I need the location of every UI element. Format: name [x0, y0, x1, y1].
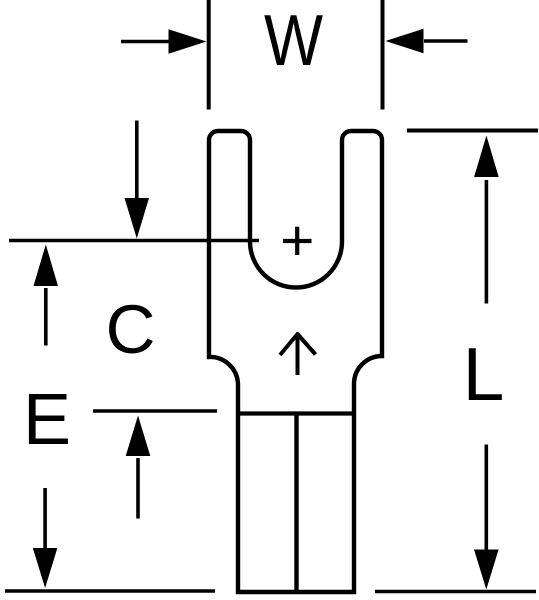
svg-text:E: E — [23, 380, 71, 460]
W extension line left — [207, 0, 211, 110]
insertion direction up-arrow glyph — [280, 334, 316, 375]
bottom-right extension line — [375, 590, 536, 594]
C bottom reference line — [93, 409, 217, 413]
L top arrow (up) — [485, 180, 489, 304]
W arrow left — [121, 40, 172, 44]
plus center mark — [283, 239, 312, 243]
E bottom arrow (down) — [43, 488, 47, 550]
C top arrow (down) — [135, 121, 139, 203]
svg-text:L: L — [463, 332, 505, 416]
C bottom arrow (up) — [136, 458, 140, 519]
svg-text:C: C — [106, 291, 156, 368]
crimp crossbar in tail — [238, 411, 354, 415]
W extension line right — [381, 0, 385, 110]
L top extension line — [407, 129, 538, 133]
seam line in tail — [294, 414, 298, 593]
E top arrow (up) — [44, 288, 48, 346]
bottom-left extension line — [5, 589, 215, 593]
W arrow right — [424, 39, 468, 43]
fork terminal outline — [209, 131, 382, 592]
L bottom arrow (down) — [484, 445, 488, 552]
slot center reference line — [9, 239, 259, 243]
svg-text:W: W — [264, 1, 323, 81]
